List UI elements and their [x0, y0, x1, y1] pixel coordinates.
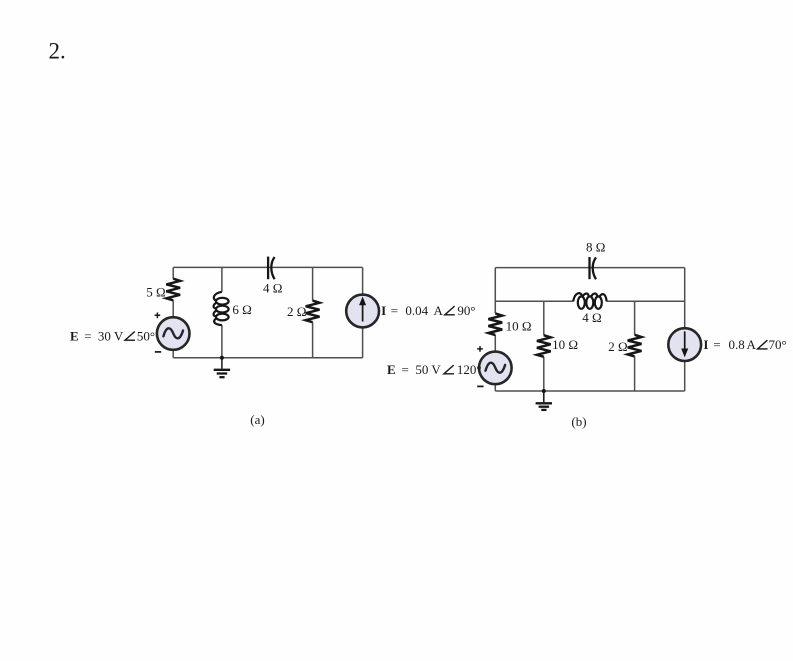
resistor 10ohm middle (b)	[537, 335, 551, 357]
svg-text:E: E	[70, 328, 79, 343]
svg-text:2.: 2.	[49, 39, 66, 64]
wire: second bus of (b)	[495, 300, 684, 302]
resistor 5ohm	[166, 279, 180, 301]
capacitor 8ohm	[590, 257, 597, 279]
svg-text:4 Ω: 4 Ω	[263, 281, 282, 296]
wire: bottom bus of (b)	[495, 390, 684, 392]
resistor 2ohm (a)	[306, 301, 320, 323]
junction node (b)	[542, 389, 546, 393]
svg-text:A: A	[747, 337, 757, 352]
resistor 10ohm left (b)	[488, 313, 502, 335]
current source I (b)	[668, 328, 701, 361]
wire: right branch of (b)	[684, 268, 686, 391]
svg-text:5 Ω: 5 Ω	[146, 285, 165, 300]
inductor 6ohm	[214, 292, 229, 325]
svg-text:10 Ω: 10 Ω	[506, 318, 532, 333]
junction node (a)	[220, 356, 224, 360]
angle symbol of I label (a)	[445, 306, 455, 315]
minus terminal of source E (a)	[155, 351, 161, 353]
wire: bottom bus of (a)	[173, 357, 362, 359]
wire: left branch stubs of (a)	[172, 267, 174, 357]
svg-text:(a): (a)	[250, 412, 264, 427]
svg-text:0.8: 0.8	[729, 337, 745, 352]
svg-text:70°: 70°	[769, 337, 787, 352]
svg-text:2 Ω: 2 Ω	[608, 339, 627, 354]
angle symbol of I label (b)	[758, 340, 768, 349]
capacitor 4ohm	[268, 257, 275, 280]
angle symbol of E label (a)	[125, 332, 135, 341]
voltage source E (a)	[157, 317, 190, 350]
plus terminal of source E (b)	[477, 346, 483, 352]
wire: 2ohm branch of (a)	[312, 267, 314, 357]
wire: top bus of (a)	[173, 266, 362, 268]
svg-text:A: A	[434, 303, 444, 318]
voltage source E (b)	[479, 352, 512, 385]
svg-text:50 V: 50 V	[415, 362, 441, 377]
svg-text:10 Ω: 10 Ω	[552, 337, 578, 352]
wire: left branch of (b)	[494, 268, 496, 391]
ground (b)	[536, 391, 552, 410]
svg-text:120°: 120°	[457, 362, 482, 377]
svg-text:30 V: 30 V	[98, 328, 124, 343]
wire: top bus of (b)	[495, 267, 684, 269]
svg-text:=: =	[84, 328, 91, 343]
svg-text:6 Ω: 6 Ω	[232, 302, 251, 317]
svg-text:I: I	[703, 337, 708, 352]
inductor 4ohm (b)	[573, 293, 606, 309]
svg-text:8 Ω: 8 Ω	[586, 240, 605, 255]
svg-text:=: =	[713, 337, 720, 352]
svg-text:50°: 50°	[137, 328, 155, 343]
resistor 2ohm (b)	[628, 335, 642, 357]
svg-text:4 Ω: 4 Ω	[582, 310, 601, 325]
svg-text:(b): (b)	[571, 414, 586, 429]
angle symbol of E label (b)	[444, 365, 454, 374]
minus terminal of source E (b)	[477, 385, 483, 387]
plus terminal of source E (a)	[155, 313, 161, 319]
svg-text:90°: 90°	[457, 303, 475, 318]
svg-text:0.04: 0.04	[405, 303, 428, 318]
wire: middle branch of (b)	[543, 301, 545, 391]
current source I (a)	[346, 295, 379, 328]
svg-text:=: =	[402, 362, 409, 377]
svg-text:=: =	[391, 303, 398, 318]
wire: inductor branch stubs of (a)	[221, 267, 223, 357]
svg-text:I: I	[381, 303, 386, 318]
svg-text:2 Ω: 2 Ω	[287, 304, 306, 319]
ground	[214, 358, 230, 378]
wire: current source branch stubs of (a)	[362, 267, 364, 357]
svg-text:E: E	[387, 362, 396, 377]
wire: 2ohm branch of (b)	[634, 301, 636, 391]
